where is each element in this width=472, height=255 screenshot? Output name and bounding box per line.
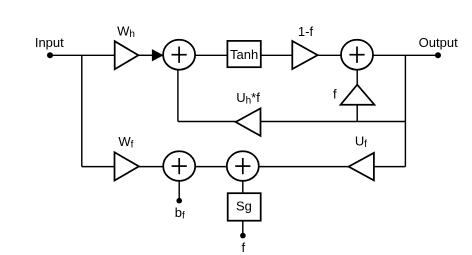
svg-text:f: f xyxy=(333,87,337,102)
svg-text:f: f xyxy=(241,240,245,255)
svg-text:Sg: Sg xyxy=(236,199,252,214)
svg-text:Tanh: Tanh xyxy=(230,47,258,62)
svg-text:Output: Output xyxy=(419,35,458,50)
svg-text:Input: Input xyxy=(35,35,64,50)
svg-text:1-f: 1-f xyxy=(298,24,314,39)
